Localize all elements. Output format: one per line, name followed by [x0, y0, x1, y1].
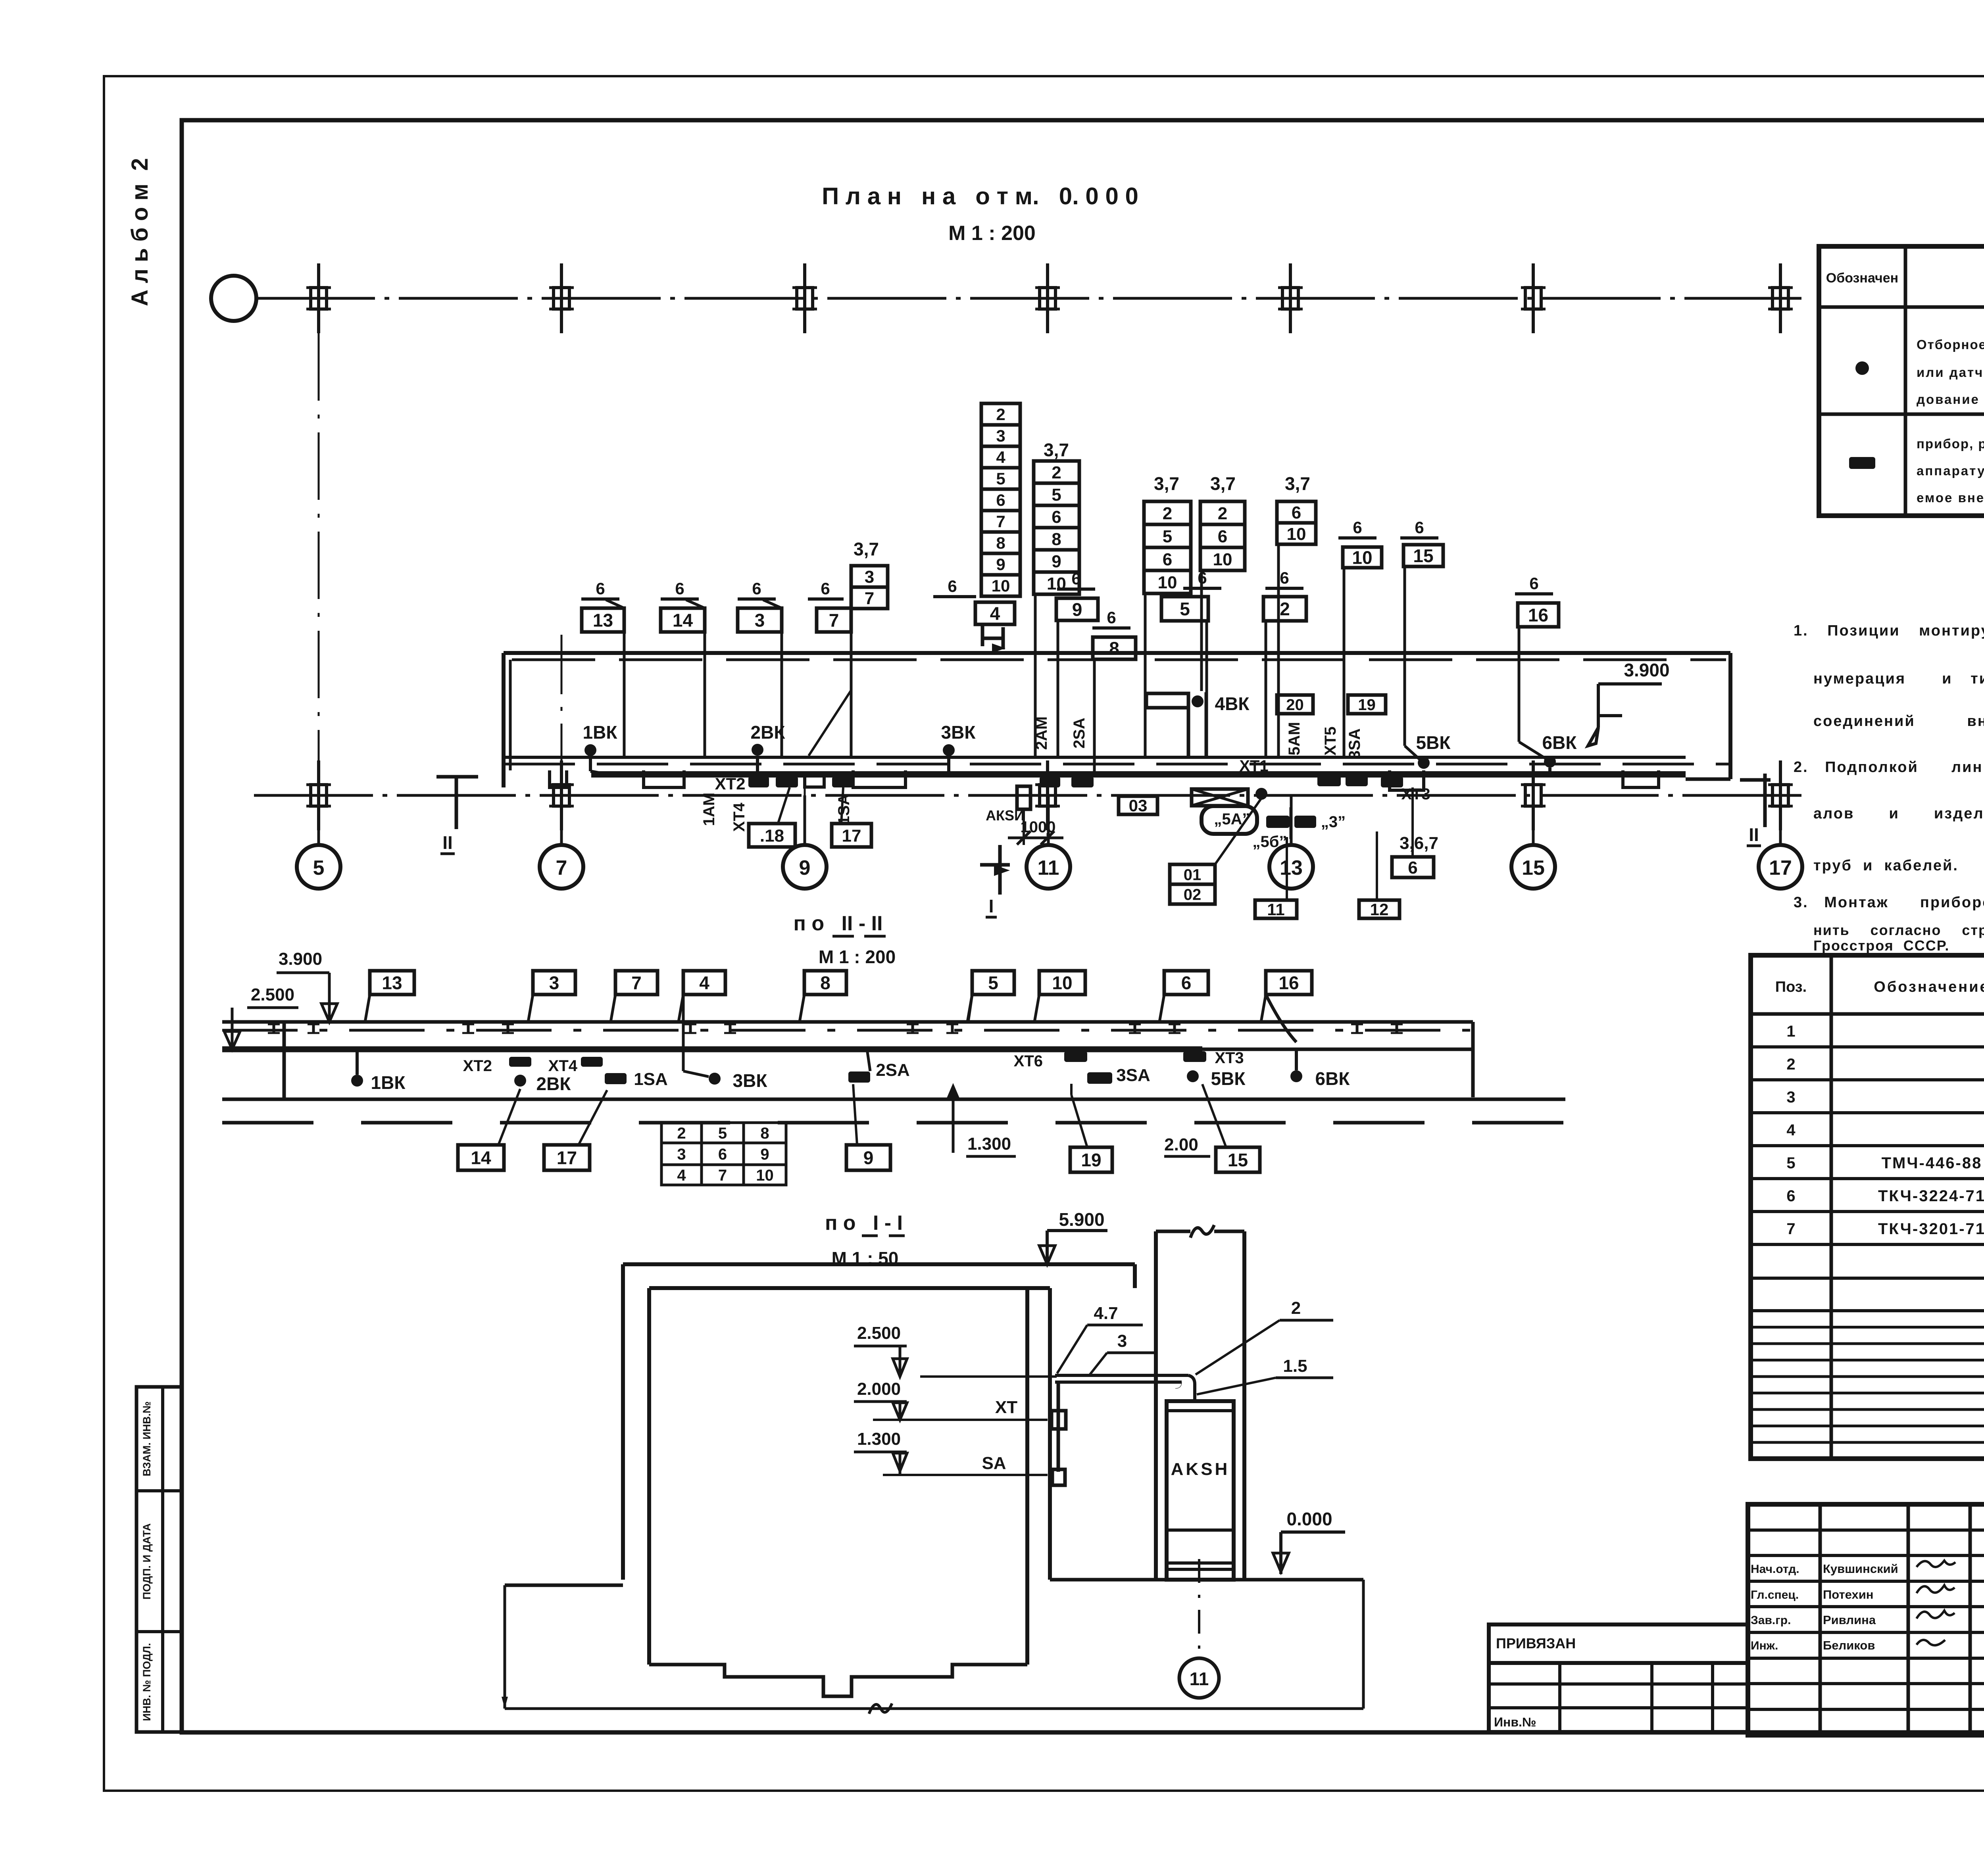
- svg-text:9: 9: [1052, 552, 1061, 571]
- svg-text:„3”: „3”: [1321, 813, 1346, 831]
- section mark I upper: [998, 845, 1002, 895]
- svg-text:„5А”: „5А”: [1214, 810, 1250, 828]
- svg-text:прибор, регулятор, исполнитель: прибор, регулятор, исполнительный механи…: [1917, 436, 1984, 451]
- svg-text:6: 6: [1052, 507, 1061, 527]
- svg-text:7: 7: [556, 856, 567, 879]
- svg-text:5: 5: [988, 973, 998, 993]
- stamp strip box: [136, 1387, 182, 1732]
- leader stack C: [1144, 594, 1147, 757]
- svg-text:2: 2: [1052, 463, 1061, 482]
- legend bar symbol: [1849, 457, 1875, 469]
- box 19: [1348, 695, 1386, 714]
- flag 3: [738, 608, 782, 632]
- legend dot symbol: [1855, 361, 1869, 375]
- box 12: [1359, 900, 1400, 918]
- svg-text:6: 6: [675, 579, 684, 598]
- svg-text:2.500: 2.500: [857, 1323, 901, 1343]
- svg-text:II: II: [1749, 824, 1759, 845]
- sec2 XT3: [1183, 1051, 1206, 1062]
- secI column: [1154, 1231, 1158, 1580]
- node dot XT1: [1255, 788, 1267, 800]
- column symbol top axis 6: [1525, 288, 1541, 309]
- crossed box 5A: [1192, 789, 1248, 806]
- flag 5: [1161, 597, 1208, 621]
- svg-text:2: 2: [677, 1125, 686, 1142]
- svg-text:10: 10: [1287, 524, 1306, 544]
- svg-text:М 1 : 200: М 1 : 200: [948, 222, 1036, 245]
- flag 13: [582, 608, 624, 632]
- axis bubble 7: [540, 845, 583, 889]
- svg-text:5: 5: [1163, 527, 1172, 546]
- svg-text:Инв.№: Инв.№: [1494, 1715, 1536, 1729]
- svg-text:3ВК: 3ВК: [941, 722, 976, 743]
- svg-text:1.300: 1.300: [857, 1429, 901, 1449]
- axis vertical 13 segment: [1290, 807, 1292, 844]
- instrument bar row XT2: [748, 776, 769, 787]
- sec2 sensor 3VK: [709, 1073, 721, 1085]
- sec2 sensor 2VK: [514, 1075, 526, 1087]
- axis vertical 15 segment: [1532, 774, 1534, 844]
- leader box 11: [1286, 837, 1288, 900]
- axis vertical 7 segment: [561, 635, 563, 844]
- svg-text:10: 10: [1213, 550, 1232, 569]
- wall pocket 5: [1623, 770, 1659, 787]
- svg-text:ПОДП. И ДАТА: ПОДП. И ДАТА: [141, 1523, 153, 1599]
- svg-text:Зав.гр.: Зав.гр.: [1751, 1614, 1791, 1627]
- secI outer wall: [621, 1264, 625, 1580]
- svg-text:15: 15: [1413, 545, 1433, 566]
- flag 7: [817, 608, 851, 632]
- sec2 flag 8: [804, 971, 846, 995]
- blob 5A: [1202, 806, 1257, 834]
- secI roof slab bottom: [649, 1286, 1050, 1290]
- axis bubble 15: [1511, 845, 1555, 889]
- elev mark 2.500: [231, 1008, 234, 1049]
- column symbol top axis 2: [554, 288, 569, 309]
- column symbols bottom axis: [311, 785, 327, 806]
- svg-text:2.500: 2.500: [251, 985, 294, 1004]
- svg-text:5ВК: 5ВК: [1416, 732, 1451, 753]
- svg-text:нумерация и типы кабелей и: нумерация и типы кабелей и труб соответс…: [1813, 670, 1984, 687]
- svg-text:3: 3: [755, 610, 765, 631]
- parts rows: [1751, 1045, 1984, 1048]
- leader 5: [1205, 621, 1208, 757]
- flag 14: [661, 608, 705, 632]
- svg-text:7: 7: [996, 512, 1005, 531]
- svg-text:3SA: 3SA: [1116, 1066, 1150, 1085]
- svg-text:12: 12: [1370, 900, 1389, 919]
- svg-text:5: 5: [1180, 599, 1190, 619]
- svg-text:3: 3: [549, 973, 559, 993]
- sec2 flag 3: [533, 971, 575, 995]
- svg-text:11: 11: [1267, 900, 1284, 919]
- flag 8: [1093, 637, 1136, 659]
- bottom axis line: [254, 794, 1803, 797]
- svg-text:5: 5: [718, 1125, 727, 1142]
- svg-text:3. Монтаж приборов и средс: 3. Монтаж приборов и средств автоматизац…: [1794, 894, 1984, 911]
- svg-text:ХТ2: ХТ2: [715, 774, 745, 793]
- box 18: [749, 824, 795, 847]
- svg-text:I: I: [989, 896, 994, 916]
- sec2 sensor 1VK: [351, 1075, 363, 1087]
- elev mark 3.900: [328, 973, 331, 1022]
- svg-text:Обозначение: Обозначение: [1874, 979, 1984, 995]
- svg-text:3ВК: 3ВК: [733, 1070, 768, 1091]
- svg-text:п о I - I: п о I - I: [825, 1212, 903, 1235]
- svg-text:ВЗАМ. ИНВ.№: ВЗАМ. ИНВ.№: [141, 1401, 153, 1476]
- svg-text:Гросстроя СССР.: Гросстроя СССР.: [1813, 937, 1949, 954]
- svg-text:10: 10: [1158, 573, 1177, 592]
- svg-text:3: 3: [996, 426, 1005, 445]
- sec2 flag 10: [1039, 971, 1085, 995]
- svg-text:дование или трубопровод: дование или трубопровод: [1917, 392, 1984, 407]
- leader 9 sec2: [853, 1084, 857, 1145]
- svg-text:2SA: 2SA: [876, 1060, 910, 1080]
- roof beam sections: [273, 1024, 275, 1033]
- svg-text:6: 6: [1529, 574, 1538, 593]
- svg-text:6: 6: [821, 579, 830, 598]
- column symbol top axis 4: [1040, 288, 1055, 309]
- secI roof slab top: [623, 1262, 1135, 1266]
- svg-text:13: 13: [382, 973, 402, 993]
- sec2 flag 4: [683, 971, 725, 995]
- ground dim verticals: [504, 1585, 506, 1709]
- svg-text:5ВК: 5ВК: [1211, 1068, 1246, 1089]
- axis bubble 11: [1027, 845, 1070, 889]
- svg-text:или датчик, встраиваемый в тех: или датчик, встраиваемый в технологическ…: [1917, 365, 1984, 380]
- secI floor: [649, 1665, 1027, 1696]
- svg-text:13: 13: [1280, 856, 1303, 879]
- secI ground left: [505, 1584, 623, 1587]
- axis vertical 11 segment: [1047, 787, 1049, 844]
- svg-text:3: 3: [1117, 1331, 1127, 1351]
- box 11: [1255, 900, 1297, 918]
- sensor 4VK: [1192, 695, 1203, 707]
- svg-text:ТКЧ-3224-71: ТКЧ-3224-71: [1878, 1187, 1984, 1205]
- leader 17: [579, 1090, 607, 1145]
- svg-text:4.7: 4.7: [1094, 1304, 1118, 1323]
- svg-text:ХТ4: ХТ4: [731, 803, 748, 832]
- leader 3: [781, 608, 783, 757]
- sec2 box 17: [544, 1145, 590, 1170]
- svg-text:ХТ: ХТ: [995, 1398, 1017, 1417]
- sec2 flag 7: [615, 971, 657, 995]
- svg-text:14: 14: [471, 1148, 491, 1168]
- sec2 box 15: [1216, 1147, 1260, 1172]
- top axis line: [256, 297, 1801, 300]
- svg-text:Отборное устройство, первичный: Отборное устройство, первичный измерьтел…: [1917, 337, 1984, 352]
- axis bubble stubs: [317, 795, 320, 845]
- svg-text:ХТ6: ХТ6: [1014, 1052, 1043, 1070]
- svg-text:20: 20: [1286, 696, 1304, 714]
- leader stack B: [1034, 594, 1037, 757]
- svg-text:SA: SA: [982, 1454, 1006, 1473]
- leader box 6: [1411, 787, 1414, 857]
- svg-text:1SA: 1SA: [835, 794, 853, 825]
- svg-text:1ВК: 1ВК: [583, 722, 618, 743]
- wall pocket 3: [853, 770, 905, 787]
- leader 19 sec2: [1071, 1095, 1087, 1147]
- secI inner wall: [647, 1288, 651, 1665]
- svg-text:8: 8: [760, 1125, 769, 1142]
- svg-text:1: 1: [1786, 1023, 1795, 1040]
- svg-text:6: 6: [948, 577, 957, 595]
- secI ground right: [1050, 1578, 1363, 1582]
- riser vertical: [1057, 1382, 1060, 1472]
- svg-text:ХТ5: ХТ5: [1322, 726, 1339, 755]
- leader to 2VK: [809, 690, 851, 756]
- svg-text:6: 6: [1408, 858, 1417, 878]
- SA device: [1052, 1469, 1065, 1485]
- signatures: [1917, 1561, 1955, 1567]
- section II duct line: [222, 1046, 1202, 1052]
- svg-text:ТМЧ-446-88: ТМЧ-446-88: [1882, 1154, 1982, 1172]
- svg-text:5: 5: [1052, 485, 1061, 505]
- svg-text:1ВК: 1ВК: [371, 1072, 406, 1093]
- stack E 6,10: [1277, 501, 1316, 523]
- bar XT3 plan: [1381, 776, 1403, 787]
- svg-text:Гл.спец.: Гл.спец.: [1751, 1588, 1799, 1601]
- svg-text:16: 16: [1278, 973, 1299, 993]
- svg-text:аппаратура и другое оборудован: аппаратура и другое оборудование , устан…: [1917, 463, 1984, 478]
- svg-text:3,7: 3,7: [1154, 473, 1179, 494]
- leader 15: [1403, 566, 1406, 746]
- section II floor: [222, 1098, 1565, 1101]
- svg-text:3.900: 3.900: [279, 949, 322, 969]
- svg-text:Инж.: Инж.: [1751, 1639, 1778, 1652]
- sec2 box 14: [458, 1145, 504, 1170]
- svg-text:4: 4: [677, 1167, 686, 1184]
- building top wall inner dashed: [512, 659, 1726, 661]
- svg-text:6: 6: [1353, 518, 1362, 537]
- leader 7: [850, 632, 853, 757]
- leader 9: [1057, 620, 1059, 757]
- svg-text:Ривлина: Ривлина: [1823, 1613, 1876, 1627]
- section II left wall: [283, 1022, 286, 1099]
- svg-text:Потехин: Потехин: [1823, 1588, 1873, 1601]
- svg-text:5: 5: [996, 469, 1005, 488]
- box 17: [832, 824, 871, 847]
- sec2 sensor 5VK: [1187, 1070, 1199, 1082]
- svg-text:Поз.: Поз.: [1775, 979, 1807, 995]
- drain mark below 4: [982, 624, 1003, 649]
- svg-text:7: 7: [631, 973, 642, 993]
- svg-text:3: 3: [1786, 1089, 1795, 1106]
- svg-text:10: 10: [756, 1167, 774, 1184]
- svg-text:17: 17: [1769, 856, 1792, 879]
- svg-text:7: 7: [1786, 1220, 1795, 1238]
- svg-text:9: 9: [1072, 599, 1082, 620]
- svg-text:6: 6: [1071, 569, 1080, 588]
- svg-text:19: 19: [1358, 696, 1376, 714]
- sec2 flag 5: [972, 971, 1014, 995]
- duct secI horizontal: [1055, 1374, 1188, 1377]
- svg-text:8: 8: [820, 973, 831, 993]
- svg-text:п о II - II: п о II - II: [794, 912, 883, 935]
- svg-text:9: 9: [863, 1148, 874, 1168]
- svg-text:ХТ4: ХТ4: [548, 1057, 578, 1075]
- axis vertical 17 segment: [1780, 774, 1782, 844]
- svg-text:4: 4: [996, 448, 1005, 467]
- sec2 sensor 6VK: [1290, 1070, 1302, 1082]
- svg-text:14: 14: [673, 610, 693, 631]
- stack 3 7 small: [851, 566, 888, 587]
- svg-text:труб и кабелей.: труб и кабелей.: [1813, 857, 1959, 874]
- building bottom wall dashed: [504, 763, 1730, 766]
- svg-text:7: 7: [829, 610, 839, 631]
- privyazan block: [1489, 1624, 1748, 1663]
- svg-text:6: 6: [718, 1146, 727, 1163]
- svg-text:2: 2: [1280, 599, 1290, 619]
- sec2 flag 6: [1164, 971, 1208, 995]
- sec2 flag 13: [370, 971, 414, 995]
- stack B 2,5,6,8,9,10: [1034, 461, 1079, 483]
- svg-text:3: 3: [865, 567, 874, 587]
- privyazan grid: [1489, 1663, 1748, 1732]
- device AKBN: [1017, 786, 1030, 809]
- axis bubble 9: [783, 845, 827, 889]
- wall pocket 4: [1390, 770, 1424, 790]
- svg-text:11: 11: [1190, 1669, 1209, 1689]
- box 6 under 367: [1392, 857, 1434, 878]
- svg-text:6: 6: [1280, 568, 1289, 587]
- axis vertical 9 segment: [804, 789, 806, 844]
- leader 15 sec2: [1202, 1084, 1226, 1147]
- svg-text:3,7: 3,7: [1285, 473, 1310, 494]
- svg-text:4ВК: 4ВК: [1215, 693, 1250, 714]
- sec2 box 19: [1070, 1147, 1112, 1172]
- svg-text:8: 8: [996, 534, 1005, 552]
- inner frame: [182, 120, 1984, 1732]
- svg-text:2ВК: 2ВК: [536, 1073, 571, 1094]
- svg-text:15: 15: [1522, 856, 1545, 879]
- svg-text:6: 6: [1107, 608, 1116, 627]
- svg-text:6: 6: [1163, 550, 1172, 569]
- svg-text:6: 6: [596, 579, 605, 598]
- section II roof line: [222, 1020, 1473, 1024]
- svg-text:6: 6: [1415, 518, 1424, 537]
- svg-text:2: 2: [1218, 504, 1227, 523]
- column symbol top axis 3: [797, 288, 813, 309]
- svg-text:10: 10: [992, 576, 1010, 595]
- axis vertical 5: [318, 333, 320, 844]
- instrument bars near axis 11: [1040, 776, 1060, 787]
- svg-text:нить согласно стр-ным норма: нить согласно стр-ным нормам и правилам …: [1813, 922, 1984, 938]
- XT junction: [1052, 1411, 1066, 1429]
- stack C 2,5,6,10: [1144, 501, 1191, 524]
- svg-text:1SA: 1SA: [634, 1070, 668, 1089]
- svg-text:3.900: 3.900: [1624, 660, 1669, 680]
- svg-text:2: 2: [1291, 1298, 1301, 1318]
- box 20: [1277, 695, 1313, 714]
- leader 2: [1265, 621, 1267, 757]
- section mark II right: [1763, 774, 1767, 827]
- svg-text:А л ь б о м 2: А л ь б о м 2: [127, 158, 153, 306]
- svg-text:3,7: 3,7: [1210, 473, 1236, 494]
- svg-text:Кувшинский: Кувшинский: [1823, 1562, 1898, 1576]
- axis bubble 11 secI: [1179, 1658, 1219, 1698]
- svg-text:9: 9: [760, 1146, 769, 1163]
- legend table frame: [1819, 246, 1984, 516]
- svg-text:8: 8: [1052, 530, 1061, 549]
- svg-text:9: 9: [996, 555, 1005, 574]
- title block left grid: [1819, 1504, 1822, 1735]
- svg-text:Беликов: Беликов: [1823, 1638, 1875, 1652]
- svg-text:17: 17: [557, 1148, 577, 1168]
- svg-text:.18: .18: [760, 826, 784, 845]
- box 01 02: [1170, 864, 1215, 884]
- svg-text:01: 01: [1184, 866, 1202, 883]
- svg-text:3SA: 3SA: [1346, 728, 1363, 759]
- svg-text:1. Позиции монтируемых прибор: 1. Позиции монтируемых приборов и аппара…: [1794, 622, 1984, 639]
- svg-text:3,7: 3,7: [854, 539, 879, 559]
- section II floor lower dashed: [222, 1121, 1565, 1125]
- svg-text:16: 16: [1528, 605, 1548, 626]
- svg-text:7: 7: [865, 589, 874, 608]
- svg-text:Обозначен: Обозначен: [1826, 271, 1898, 286]
- leader box 12: [1376, 831, 1378, 900]
- svg-text:ПРИВЯЗАН: ПРИВЯЗАН: [1496, 1635, 1576, 1651]
- axis bubble 5: [297, 845, 340, 889]
- svg-text:4: 4: [699, 973, 709, 993]
- svg-text:3,7: 3,7: [1044, 440, 1069, 460]
- section II roof dashed: [222, 1029, 1473, 1032]
- svg-text:соединений внешних проводо: соединений внешних проводок.: [1813, 713, 1984, 730]
- svg-text:2АМ: 2АМ: [1033, 716, 1050, 750]
- flag 15: [1403, 545, 1443, 566]
- svg-text:4: 4: [990, 603, 1000, 624]
- flag 10: [1343, 547, 1382, 568]
- svg-text:1.300: 1.300: [967, 1134, 1011, 1154]
- axis line to bubble: [1198, 1559, 1200, 1658]
- stack D 2,6,10: [1200, 501, 1245, 524]
- column break squiggle: [1190, 1225, 1214, 1238]
- svg-text:2.00: 2.00: [1164, 1135, 1198, 1154]
- axis bubble 17: [1759, 845, 1802, 889]
- svg-text:М 1 : 200: М 1 : 200: [819, 947, 896, 967]
- svg-text:ИНВ. № ПОДЛ.: ИНВ. № ПОДЛ.: [141, 1643, 153, 1721]
- svg-text:АКSИ: АКSИ: [986, 807, 1025, 824]
- flag 9: [1056, 598, 1098, 620]
- svg-text:AKSH: AKSH: [1171, 1459, 1230, 1479]
- sec2 box 9: [846, 1145, 890, 1170]
- wall pocket 2: [644, 770, 684, 787]
- sec2 3SA: [1087, 1072, 1112, 1084]
- svg-text:2SA: 2SA: [1071, 718, 1088, 749]
- duct elbow: [1188, 1375, 1195, 1396]
- building left wall: [502, 653, 506, 787]
- svg-text:1АМ: 1АМ: [700, 793, 718, 826]
- svg-text:6: 6: [996, 491, 1005, 509]
- leader from device: [1023, 809, 1025, 845]
- svg-text:13: 13: [593, 610, 613, 631]
- svg-text:ХТ3: ХТ3: [1215, 1049, 1244, 1067]
- sec2 2SA: [848, 1071, 870, 1083]
- svg-text:02: 02: [1184, 886, 1202, 903]
- building right wall: [1728, 653, 1732, 779]
- column symbol top axis 5: [1282, 288, 1298, 309]
- svg-text:3: 3: [677, 1146, 686, 1163]
- svg-text:Нач.отд.: Нач.отд.: [1751, 1563, 1799, 1576]
- svg-text:2: 2: [1163, 504, 1172, 523]
- svg-text:II: II: [442, 832, 453, 853]
- top axis bubble: [211, 276, 256, 321]
- svg-text:10: 10: [1052, 973, 1072, 993]
- secI slab right edge: [1133, 1264, 1137, 1288]
- svg-text:8: 8: [1109, 638, 1119, 659]
- svg-text:6: 6: [1218, 527, 1227, 546]
- leader 16: [1518, 627, 1521, 742]
